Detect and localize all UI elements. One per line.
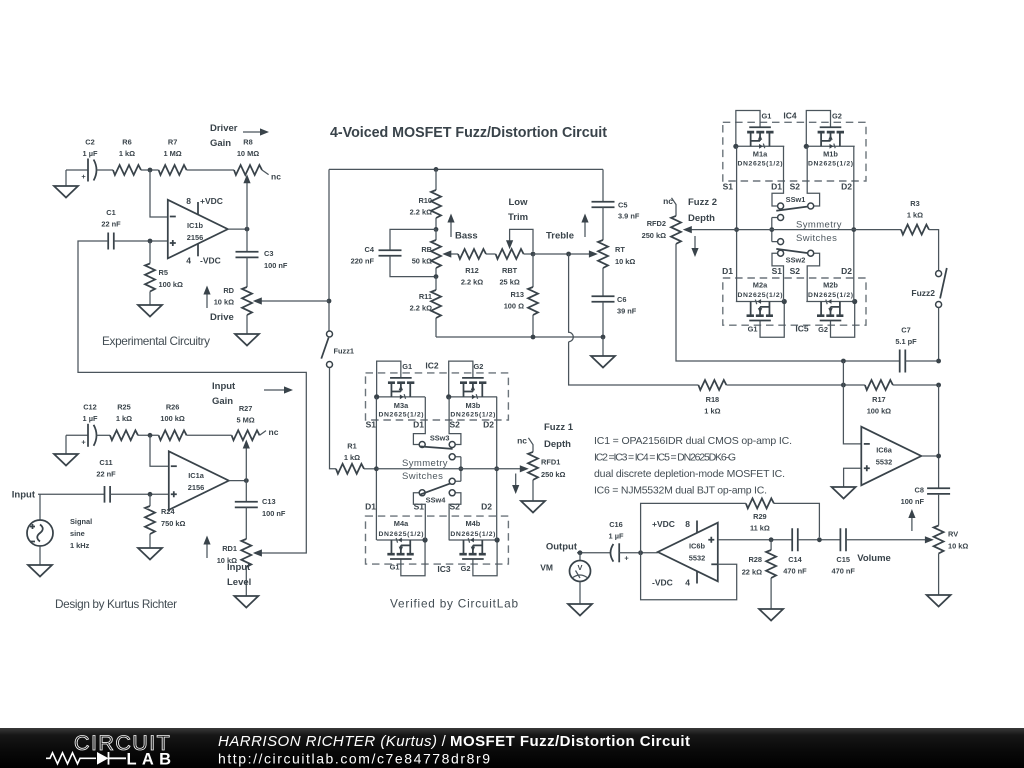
transistor M1a xyxy=(733,111,784,149)
wire RD wiper xyxy=(257,300,330,302)
svg-text:R6: R6 xyxy=(122,138,131,147)
svg-text:http://circuitlab.com/c7e84778: http://circuitlab.com/c7e84778dr8r9 xyxy=(218,751,490,767)
svg-text:S2: S2 xyxy=(790,182,801,192)
ground xyxy=(832,487,856,499)
svg-text:5532: 5532 xyxy=(876,458,892,467)
svg-text:C2: C2 xyxy=(85,138,94,147)
ground xyxy=(138,548,162,560)
svg-text:S1: S1 xyxy=(414,501,425,511)
svg-text:RD1: RD1 xyxy=(222,544,237,553)
voltmeter VM xyxy=(579,553,581,561)
svg-text:Input: Input xyxy=(212,381,236,392)
svg-text:22 nF: 22 nF xyxy=(101,220,121,229)
svg-text:Input: Input xyxy=(227,562,251,573)
svg-text:+VDC: +VDC xyxy=(652,519,675,529)
wire xyxy=(187,434,232,436)
svg-text:22 nF: 22 nF xyxy=(96,470,116,479)
svg-text:Drive: Drive xyxy=(210,312,234,323)
svg-text:G2: G2 xyxy=(818,325,828,334)
svg-text:3.9 nF: 3.9 nF xyxy=(618,212,640,221)
svg-text:SSw2: SSw2 xyxy=(786,255,806,264)
wire xyxy=(187,169,234,171)
svg-text:1 kΩ: 1 kΩ xyxy=(704,407,720,416)
svg-text:G1: G1 xyxy=(390,563,400,572)
resistor R25 xyxy=(110,430,138,440)
svg-text:DN2625(1/2): DN2625(1/2) xyxy=(808,292,853,299)
node junction xyxy=(327,299,332,304)
svg-text:5532: 5532 xyxy=(689,554,705,563)
svg-text:R5: R5 xyxy=(159,268,168,277)
ground xyxy=(235,334,259,346)
switch pole xyxy=(772,218,778,242)
capacitor C4 xyxy=(390,229,436,250)
wire xyxy=(929,230,939,271)
wire IC6a inverting input xyxy=(843,361,861,444)
svg-text:-VDC: -VDC xyxy=(200,256,221,266)
svg-text:R11: R11 xyxy=(419,292,432,301)
node junction xyxy=(734,227,739,232)
svg-text:100 kΩ: 100 kΩ xyxy=(160,414,184,423)
svg-text:D2: D2 xyxy=(481,501,492,511)
potentiometer RT xyxy=(598,240,608,268)
svg-text:100 nF: 100 nF xyxy=(264,261,288,270)
wire S1 column xyxy=(736,146,738,301)
svg-text:5.1 pF: 5.1 pF xyxy=(895,337,917,346)
svg-text:D2: D2 xyxy=(483,420,494,430)
svg-text:DN2625(1/2): DN2625(1/2) xyxy=(738,292,783,299)
svg-text:1 kΩ: 1 kΩ xyxy=(119,149,135,158)
svg-text:1 kHz: 1 kHz xyxy=(70,541,90,550)
svg-text:4: 4 xyxy=(685,578,690,588)
svg-text:CIRCUIT: CIRCUIT xyxy=(74,731,172,755)
svg-text:IC1b: IC1b xyxy=(187,221,204,230)
svg-text:C3: C3 xyxy=(264,249,273,258)
node junction xyxy=(566,252,571,257)
ground xyxy=(65,170,67,186)
wire output xyxy=(229,480,247,482)
svg-text:D1: D1 xyxy=(771,182,782,192)
wire inverting loop xyxy=(641,553,737,600)
svg-text:1 kΩ: 1 kΩ xyxy=(116,414,132,423)
resistor R11 xyxy=(435,277,437,290)
resistor R29 xyxy=(746,498,774,508)
svg-text:D1: D1 xyxy=(365,501,376,511)
pin 4 -VDC xyxy=(696,571,698,583)
svg-text:11 kΩ: 11 kΩ xyxy=(750,524,770,533)
ic box IC5 xyxy=(723,278,866,325)
svg-text:IC6b: IC6b xyxy=(689,542,706,551)
wire hop to feedback xyxy=(569,254,699,385)
ic box IC4 xyxy=(723,122,866,181)
node junction xyxy=(374,466,379,471)
potentiometer RB xyxy=(435,229,437,240)
svg-text:1 µF: 1 µF xyxy=(83,414,98,423)
wire feedback loop RD1 wiper to C1 xyxy=(78,241,306,553)
pin 8 +VDC xyxy=(696,521,698,533)
capacitor C15 xyxy=(840,528,846,551)
capacitor C14 xyxy=(792,528,798,551)
svg-text:Input: Input xyxy=(12,490,36,501)
ground xyxy=(234,596,258,608)
resistor R7 xyxy=(159,165,187,175)
svg-text:100 kΩ: 100 kΩ xyxy=(867,407,891,416)
wire RBT wiper loop xyxy=(510,229,533,251)
svg-text:+: + xyxy=(81,438,86,447)
potentiometer RD xyxy=(242,287,252,315)
potentiometer RBT xyxy=(496,249,524,259)
svg-text:250 kΩ: 250 kΩ xyxy=(541,470,565,479)
node junction xyxy=(638,550,643,555)
svg-text:8: 8 xyxy=(685,519,690,529)
op-amp IC1b xyxy=(168,200,228,259)
svg-text:IC6a: IC6a xyxy=(876,446,893,455)
svg-text:RFD2: RFD2 xyxy=(647,219,666,228)
wire output xyxy=(228,228,247,230)
wire xyxy=(141,169,159,171)
op-amp IC6a xyxy=(861,427,921,486)
resistor R10 xyxy=(434,167,439,172)
resistor R24 xyxy=(149,494,151,506)
svg-text:R28: R28 xyxy=(748,555,762,564)
svg-text:DN2625(1/2): DN2625(1/2) xyxy=(450,531,495,538)
node junction xyxy=(531,335,536,340)
ground xyxy=(39,546,41,565)
svg-text:DN2625(1/2): DN2625(1/2) xyxy=(738,161,783,168)
wire xyxy=(938,308,940,362)
resistor R3 xyxy=(901,225,929,235)
pin 8 +VDC xyxy=(197,202,199,215)
svg-text:DN2625(1/2): DN2625(1/2) xyxy=(808,161,853,168)
svg-text:S1: S1 xyxy=(723,182,734,192)
svg-text:100 Ω: 100 Ω xyxy=(504,302,524,311)
svg-text:Trim: Trim xyxy=(508,212,528,223)
svg-text:C14: C14 xyxy=(788,555,802,564)
node junction xyxy=(434,274,439,279)
svg-text:M2b: M2b xyxy=(823,281,838,290)
svg-text:10 kΩ: 10 kΩ xyxy=(948,542,968,551)
capacitor C3 xyxy=(246,229,248,252)
wire bottom rail xyxy=(436,336,603,338)
node junction xyxy=(841,359,846,364)
svg-text:Switches: Switches xyxy=(402,471,443,482)
potentiometer RFD2 xyxy=(672,198,677,216)
svg-text:Gain: Gain xyxy=(212,396,233,407)
capacitor C13 xyxy=(245,481,247,502)
node junction xyxy=(841,383,846,388)
svg-text:RFD1: RFD1 xyxy=(541,458,560,467)
svg-text:IC3: IC3 xyxy=(437,564,451,574)
svg-text:Fuzz 2: Fuzz 2 xyxy=(688,197,717,208)
node junction xyxy=(769,537,774,542)
svg-text:R29: R29 xyxy=(753,512,767,521)
wire xyxy=(893,384,939,386)
wire feedback R29 loop xyxy=(641,503,746,552)
node junction xyxy=(494,466,499,471)
wire xyxy=(328,169,330,331)
wire inverting input xyxy=(150,435,169,466)
potentiometer RFD1 xyxy=(528,438,533,452)
svg-text:+: + xyxy=(81,172,86,181)
ground xyxy=(759,609,783,621)
capacitor C11 xyxy=(105,486,111,503)
svg-text:C1: C1 xyxy=(106,208,115,217)
svg-text:R3: R3 xyxy=(910,199,919,208)
wire xyxy=(577,552,610,554)
node junction xyxy=(936,383,941,388)
node junction xyxy=(936,454,941,459)
svg-text:S2: S2 xyxy=(790,266,801,276)
wire xyxy=(364,468,376,470)
svg-text:Symmetry: Symmetry xyxy=(796,220,842,231)
potentiometer R27 xyxy=(232,430,260,440)
capacitor C2 xyxy=(87,159,89,182)
svg-text:IC6 = NJM5532M dual BJT op-amp: IC6 = NJM5532M dual BJT op-amp IC. xyxy=(594,485,767,497)
svg-text:-VDC: -VDC xyxy=(652,578,673,588)
transistor M2a xyxy=(736,299,787,337)
ground xyxy=(521,501,545,513)
svg-text:C12: C12 xyxy=(83,403,97,412)
svg-text:sine: sine xyxy=(70,529,85,538)
svg-text:Low: Low xyxy=(509,197,529,208)
svg-text:Output: Output xyxy=(546,542,578,553)
svg-text:Driver: Driver xyxy=(210,123,238,134)
svg-text:Experimental Circuitry: Experimental Circuitry xyxy=(102,334,210,348)
capacitor C1 xyxy=(108,233,114,250)
wire nc stub xyxy=(262,170,269,175)
svg-text:nc: nc xyxy=(517,436,527,446)
svg-text:100 kΩ: 100 kΩ xyxy=(159,280,183,289)
svg-text:RBT: RBT xyxy=(502,266,518,275)
node junction xyxy=(148,239,153,244)
node junction xyxy=(148,168,153,173)
wire mid rail xyxy=(687,229,902,231)
node junction xyxy=(851,227,856,232)
svg-text:Treble: Treble xyxy=(546,231,574,242)
wire xyxy=(798,539,841,541)
svg-text:R10: R10 xyxy=(418,196,432,205)
wire noninverting input xyxy=(718,539,793,541)
wire wiper R8 xyxy=(246,182,248,230)
op-amp IC1a xyxy=(169,451,229,510)
svg-text:Depth: Depth xyxy=(544,439,571,450)
node junction xyxy=(148,492,153,497)
svg-text:SSw4: SSw4 xyxy=(426,496,447,505)
svg-text:M3a: M3a xyxy=(394,401,409,410)
svg-text:1 µF: 1 µF xyxy=(609,532,624,541)
svg-text:4: 4 xyxy=(186,256,191,266)
wire RFD2 to C7 rail xyxy=(676,244,900,361)
svg-text:470 nF: 470 nF xyxy=(783,567,807,576)
svg-text:2.2 kΩ: 2.2 kΩ xyxy=(461,278,483,287)
switch SSw2 xyxy=(772,253,784,301)
svg-text:R7: R7 xyxy=(168,138,177,147)
svg-text:M1b: M1b xyxy=(823,150,838,159)
svg-text:C8: C8 xyxy=(915,486,924,495)
svg-text:G1: G1 xyxy=(762,111,772,120)
wire RT wiper xyxy=(589,250,598,257)
wire xyxy=(246,315,248,334)
wire wiper R27 xyxy=(245,447,247,481)
svg-text:G2: G2 xyxy=(832,111,842,120)
node junction xyxy=(434,227,439,232)
svg-text:D2: D2 xyxy=(841,182,852,192)
transistor M4b xyxy=(449,537,500,575)
svg-text:39 nF: 39 nF xyxy=(617,307,637,316)
switch pole xyxy=(455,457,461,482)
switch SSw1 xyxy=(772,146,784,206)
svg-text:M3b: M3b xyxy=(466,401,481,410)
transistor M4a xyxy=(377,537,428,575)
capacitor C5 xyxy=(602,169,604,201)
svg-text:Fuzz 1: Fuzz 1 xyxy=(544,422,574,433)
svg-text:S2: S2 xyxy=(450,420,461,430)
svg-text:R26: R26 xyxy=(166,403,180,412)
svg-text:2156: 2156 xyxy=(188,483,204,492)
svg-text:nc: nc xyxy=(271,172,281,182)
transistor M3a xyxy=(374,361,425,399)
resistor R6 xyxy=(113,165,141,175)
wire xyxy=(110,493,169,495)
wire noninverting input xyxy=(38,493,105,495)
svg-text:DN2625(1/2): DN2625(1/2) xyxy=(450,412,495,419)
svg-text:Level: Level xyxy=(227,577,251,588)
wire to RV wiper xyxy=(846,539,930,541)
node junction xyxy=(244,478,249,483)
wire xyxy=(774,503,820,537)
svg-text:C13: C13 xyxy=(262,497,276,506)
svg-text:LAB: LAB xyxy=(127,751,172,768)
svg-text:DN2625(1/2): DN2625(1/2) xyxy=(379,531,424,538)
transistor M1b xyxy=(804,111,855,149)
wire noninverting input xyxy=(114,240,168,242)
node junction xyxy=(245,227,250,232)
svg-text:+: + xyxy=(624,554,629,563)
resistor R17 xyxy=(865,380,893,390)
svg-text:SSw1: SSw1 xyxy=(786,195,806,204)
svg-text:10 kΩ: 10 kΩ xyxy=(615,257,635,266)
wire xyxy=(486,253,496,255)
svg-text:RV: RV xyxy=(948,530,958,539)
svg-text:VM: VM xyxy=(540,563,553,573)
wire xyxy=(533,253,594,255)
svg-text:D2: D2 xyxy=(841,266,852,276)
svg-text:Switches: Switches xyxy=(796,233,837,244)
svg-text:4-Voiced MOSFET Fuzz/Distortio: 4-Voiced MOSFET Fuzz/Distortion Circuit xyxy=(330,125,607,141)
svg-text:Gain: Gain xyxy=(210,138,231,149)
svg-text:S1: S1 xyxy=(366,420,377,430)
svg-text:D1: D1 xyxy=(413,420,424,430)
svg-text:10 MΩ: 10 MΩ xyxy=(237,149,259,158)
svg-text:Fuzz1: Fuzz1 xyxy=(334,347,355,356)
wire IC6a noninverting input xyxy=(844,468,862,487)
wire S1 column xyxy=(375,397,377,540)
svg-text:Design by Kurtus Richter: Design by Kurtus Richter xyxy=(55,597,177,611)
capacitor C12 xyxy=(87,424,89,447)
svg-text:HARRISON RICHTER (Kurtus) / MO: HARRISON RICHTER (Kurtus) / MOSFET Fuzz/… xyxy=(218,733,690,750)
wire D2 column xyxy=(496,397,498,540)
svg-text:8: 8 xyxy=(186,196,191,206)
svg-text:G1: G1 xyxy=(748,325,758,334)
capacitor C16 xyxy=(611,544,614,562)
svg-text:10 kΩ: 10 kΩ xyxy=(214,298,234,307)
ground xyxy=(579,582,581,605)
wire xyxy=(938,494,940,526)
svg-text:R25: R25 xyxy=(117,403,131,412)
svg-text:RB: RB xyxy=(421,245,432,254)
wire xyxy=(330,368,337,469)
svg-text:IC2: IC2 xyxy=(425,361,439,371)
svg-text:C6: C6 xyxy=(617,295,626,304)
svg-text:M2a: M2a xyxy=(753,281,768,290)
svg-text:100 nF: 100 nF xyxy=(262,509,286,518)
svg-text:nc: nc xyxy=(663,196,673,206)
svg-text:25 kΩ: 25 kΩ xyxy=(499,278,519,287)
svg-text:SSw3: SSw3 xyxy=(430,434,450,443)
svg-text:22 kΩ: 22 kΩ xyxy=(742,568,762,577)
node junction xyxy=(817,537,822,542)
svg-text:R13: R13 xyxy=(510,290,524,299)
wire top rail xyxy=(329,168,603,170)
ground xyxy=(65,435,67,454)
svg-text:2156: 2156 xyxy=(187,233,203,242)
voltage source V1 signal sine xyxy=(39,494,41,520)
node junction xyxy=(601,335,606,340)
svg-text:1 kΩ: 1 kΩ xyxy=(344,453,360,462)
svg-text:M1a: M1a xyxy=(753,150,768,159)
node junction xyxy=(936,359,941,364)
svg-text:RT: RT xyxy=(615,245,625,254)
ground xyxy=(602,337,604,356)
node junction xyxy=(531,252,536,257)
svg-text:C4: C4 xyxy=(365,245,375,254)
svg-text:DN2625(1/2): DN2625(1/2) xyxy=(379,412,424,419)
svg-text:C11: C11 xyxy=(99,458,112,467)
potentiometer RD1 xyxy=(241,539,251,567)
wire xyxy=(726,384,865,386)
capacitor C8 xyxy=(927,488,950,494)
svg-text:Verified by CircuitLab: Verified by CircuitLab xyxy=(390,597,518,611)
ic box IC2 xyxy=(366,373,509,420)
wire RFD1 wiper xyxy=(520,465,529,472)
capacitor C7 xyxy=(900,350,906,373)
svg-text:S1: S1 xyxy=(772,266,783,276)
svg-text:R18: R18 xyxy=(706,395,720,404)
ground xyxy=(138,305,162,317)
wire RFD2 wiper xyxy=(683,226,692,233)
svg-text:Symmetry: Symmetry xyxy=(402,458,448,469)
transistor M3b xyxy=(446,361,497,399)
svg-text:nc: nc xyxy=(269,427,279,437)
svg-text:G2: G2 xyxy=(474,362,484,371)
switch Fuzz2 xyxy=(936,271,942,277)
svg-text:R27: R27 xyxy=(239,404,253,413)
svg-text:Signal: Signal xyxy=(70,517,92,526)
node junction xyxy=(148,433,153,438)
wire xyxy=(138,434,159,436)
wire xyxy=(905,360,938,362)
svg-text:M4a: M4a xyxy=(394,519,409,528)
svg-text:C7: C7 xyxy=(901,326,910,335)
svg-text:G2: G2 xyxy=(461,564,471,573)
svg-text:M4b: M4b xyxy=(466,519,481,528)
wire RB wiper xyxy=(446,253,458,255)
resistor R1 xyxy=(336,464,364,474)
resistor R12 xyxy=(458,249,486,259)
resistor R18 xyxy=(698,380,726,390)
wire nc stub xyxy=(260,431,266,436)
svg-text:1 kΩ: 1 kΩ xyxy=(907,211,923,220)
svg-text:+VDC: +VDC xyxy=(200,196,223,206)
